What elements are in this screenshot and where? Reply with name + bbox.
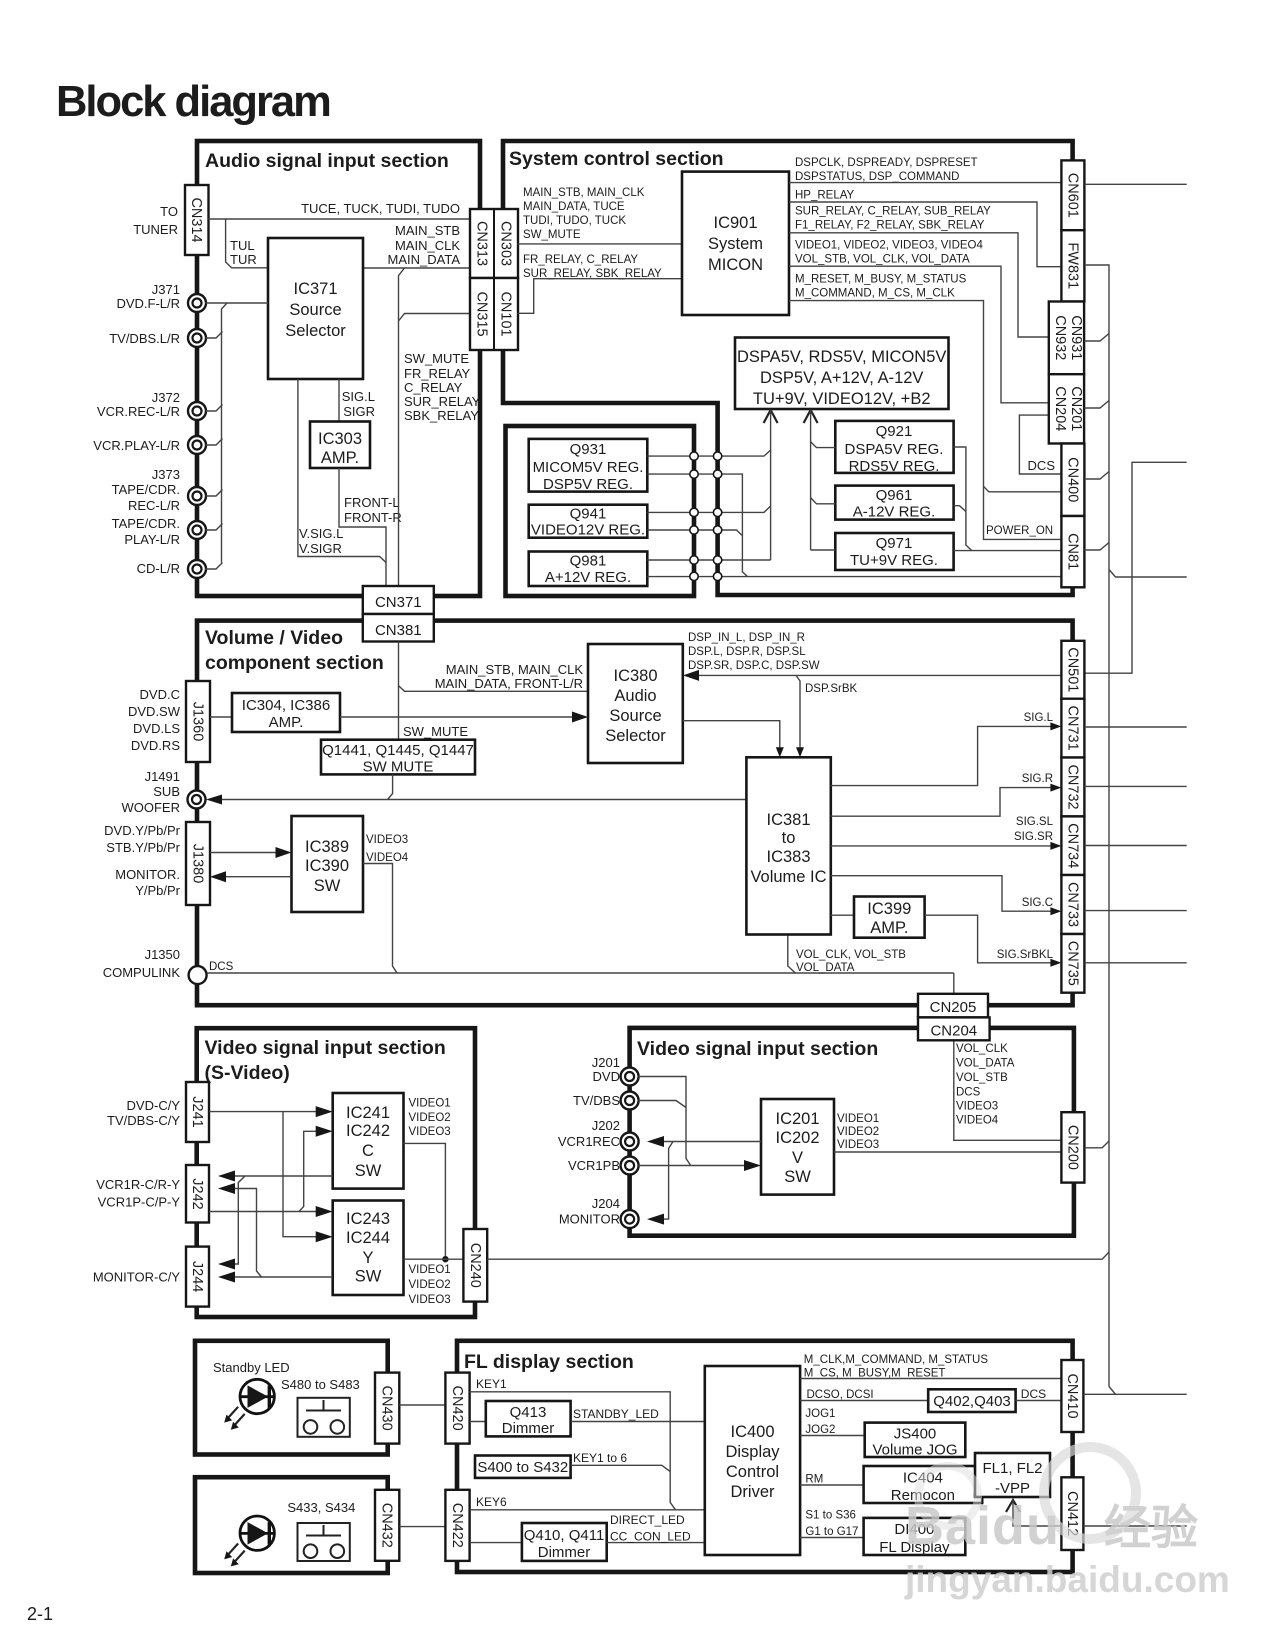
svg-text:VIDEO1, VIDEO2, VIDEO3, VIDEO4: VIDEO1, VIDEO2, VIDEO3, VIDEO4 [795, 240, 984, 252]
connector CN205 [918, 994, 988, 1018]
svg-text:VCR1R-C/R-Y: VCR1R-C/R-Y [96, 1177, 180, 1192]
svg-text:FL1, FL2: FL1, FL2 [982, 1460, 1042, 1477]
jack TAPE/CDR PLAY-L/R [188, 521, 206, 539]
svg-text:TUDI, TUDO, TUCK: TUDI, TUDO, TUCK [523, 215, 626, 227]
svg-text:V.SIG.L: V.SIG.L [299, 526, 343, 541]
wire audio jack collector vertical [222, 303, 228, 563]
svg-text:DVD.C: DVD.C [140, 687, 180, 702]
svg-text:Volume JOG: Volume JOG [872, 1442, 957, 1459]
wire IC304 to IC380 with arrow [340, 716, 579, 718]
svg-text:MAIN_DATA: MAIN_DATA [388, 252, 461, 267]
section box: System control section [503, 141, 1073, 595]
svg-text:DCS: DCS [1021, 1387, 1046, 1401]
wire CN240 long line to bus [487, 1252, 1109, 1259]
svg-text:CN932: CN932 [1052, 315, 1068, 360]
svg-text:RM: RM [805, 1474, 823, 1486]
svg-text:-VPP: -VPP [995, 1480, 1030, 1497]
wire KEY6 CN422 to IC400 [470, 1509, 705, 1511]
wire SW_MUTE CN381 to Q1441 [398, 642, 400, 740]
svg-text:CN422: CN422 [449, 1503, 465, 1548]
svg-text:FL display section: FL display section [464, 1351, 634, 1373]
wire MAIN bus IC371 to CN313 [363, 267, 470, 269]
ic IC400 Display Control Driver [705, 1366, 800, 1555]
wire VCR1PB into IC201 with arrow [638, 1165, 752, 1167]
display tube FL1, FL2 -VPP [975, 1453, 1050, 1497]
jog encoder JS400 Volume JOG [865, 1423, 966, 1457]
wire CD jack stub [206, 563, 223, 570]
svg-text:CN81: CN81 [1064, 533, 1080, 570]
svg-text:SIG.SrBKL: SIG.SrBKL [997, 949, 1054, 961]
svg-text:IC901: IC901 [713, 214, 757, 232]
wire J1360 to IC304 [210, 716, 232, 718]
svg-text:VIDEO4: VIDEO4 [956, 1115, 999, 1127]
wire SIG.C to CN733 [831, 876, 1053, 912]
wire V.SIG IC371 to CN371 [298, 379, 386, 563]
wire TV/DBS jack merge [638, 1101, 686, 1108]
connector CN371 [363, 586, 434, 614]
svg-text:DSPA5V REG.: DSPA5V REG. [845, 441, 944, 458]
svg-text:DSP.L, DSP.R, DSP.SL: DSP.L, DSP.R, DSP.SL [688, 646, 806, 658]
wire J242 into IC243 with arrow [209, 1211, 324, 1213]
svg-text:Driver: Driver [731, 1483, 776, 1501]
wire DCS compulink line [207, 972, 954, 974]
svg-text:DSPCLK, DSPREADY, DSPRESET: DSPCLK, DSPREADY, DSPRESET [795, 157, 978, 169]
connector CN733 [1061, 875, 1084, 934]
connector CN81 [1061, 516, 1084, 587]
jack CD-L/R [188, 560, 206, 578]
svg-text:Q931: Q931 [570, 441, 607, 458]
svg-text:Volume IC: Volume IC [750, 868, 826, 886]
svg-text:Y/Pb/Pr: Y/Pb/Pr [135, 883, 180, 898]
svg-text:DVD-C/Y: DVD-C/Y [127, 1098, 181, 1113]
svg-text:DSP.SR, DSP.C, DSP.SW: DSP.SR, DSP.C, DSP.SW [688, 660, 820, 672]
connector CN931 / CN932 [1049, 302, 1084, 375]
svg-text:CN371: CN371 [375, 594, 422, 611]
svg-text:VOL_DATA: VOL_DATA [956, 1058, 1015, 1070]
wire IC400 JOG to JS400 [800, 1435, 865, 1437]
wire Q961 out [954, 506, 966, 512]
svg-text:DSP_IN_L, DSP_IN_R: DSP_IN_L, DSP_IN_R [688, 632, 805, 644]
wire J241 branch into IC243 with arrow [283, 1112, 324, 1237]
wire Q931 out row1 [647, 450, 770, 456]
connector CN314 [185, 185, 209, 255]
svg-text:Source: Source [609, 707, 661, 725]
svg-text:IC380: IC380 [613, 667, 657, 685]
svg-text:DCS: DCS [1028, 458, 1056, 473]
jack J373 TAPE/CDR REC-L/R [188, 487, 206, 505]
regulator Q961 A-12V [835, 486, 953, 520]
svg-text:M_CLK,M_COMMAND, M_STATUS: M_CLK,M_COMMAND, M_STATUS [804, 1354, 989, 1366]
jack J1350 COMPULINK [189, 966, 207, 984]
svg-text:MICON: MICON [708, 256, 763, 274]
wire CN81 merge to bus [1084, 543, 1109, 551]
svg-text:CN420: CN420 [449, 1386, 465, 1431]
svg-text:VOL_STB, VOL_CLK, VOL_DATA: VOL_STB, VOL_CLK, VOL_DATA [795, 254, 970, 266]
svg-text:VOL_STB: VOL_STB [956, 1072, 1008, 1084]
led D480 symbol [240, 1379, 274, 1413]
wire VCR.PLAY jack stub [206, 439, 223, 446]
svg-text:STB.Y/Pb/Pr: STB.Y/Pb/Pr [106, 840, 180, 855]
wire CN422 to Q410 [470, 1542, 522, 1544]
svg-text:DSP5V REG.: DSP5V REG. [543, 476, 633, 493]
svg-text:CN303: CN303 [498, 221, 514, 266]
svg-text:CN430: CN430 [379, 1386, 395, 1431]
wire CN932 merge to bus [1084, 334, 1109, 342]
wire SIG.L to CN731 [831, 726, 1053, 785]
svg-text:CN731: CN731 [1064, 706, 1080, 751]
wire DCS CN201/204 to CN400 [1019, 415, 1060, 474]
svg-text:IC201: IC201 [775, 1110, 819, 1128]
svg-text:VIDEO3: VIDEO3 [837, 1139, 879, 1151]
svg-text:IC389: IC389 [305, 838, 349, 856]
svg-text:IC400: IC400 [730, 1423, 774, 1441]
svg-text:CN501: CN501 [1064, 647, 1080, 692]
svg-text:MAIN_STB, MAIN_CLK: MAIN_STB, MAIN_CLK [523, 187, 645, 199]
amp IC399 [854, 897, 925, 938]
svg-text:Volume / Video: Volume / Video [205, 627, 343, 649]
svg-text:MAIN_CLK: MAIN_CLK [395, 238, 460, 253]
svg-text:SW: SW [355, 1268, 382, 1286]
svg-text:CN204: CN204 [930, 1023, 977, 1040]
svg-text:to: to [782, 829, 796, 847]
svg-text:VOL_DATA: VOL_DATA [796, 962, 855, 974]
svg-text:KEY1 to 6: KEY1 to 6 [573, 1451, 627, 1465]
svg-text:J1491: J1491 [145, 769, 180, 784]
wire IC901 to CN601 [789, 182, 1061, 184]
svg-text:KEY1: KEY1 [476, 1377, 507, 1391]
svg-text:F1_RELAY, F2_RELAY, SBK_RELAY: F1_RELAY, F2_RELAY, SBK_RELAY [795, 220, 985, 232]
wire CN101 to IC901 relay [518, 279, 682, 314]
svg-text:M_RESET, M_BUSY, M_STATUS: M_RESET, M_BUSY, M_STATUS [795, 274, 967, 286]
svg-text:CN201: CN201 [1068, 386, 1084, 431]
svg-text:WOOFER: WOOFER [122, 800, 181, 815]
svg-text:CN204: CN204 [1052, 386, 1068, 431]
svg-text:CN200: CN200 [1064, 1125, 1080, 1170]
wire IC901 video/vol to CN201/204 [789, 266, 1049, 403]
svg-text:J241: J241 [189, 1096, 205, 1127]
svg-text:VCR1P-C/P-Y: VCR1P-C/P-Y [98, 1195, 181, 1210]
svg-text:CN732: CN732 [1064, 764, 1080, 809]
svg-text:VIDEO12V REG.: VIDEO12V REG. [531, 522, 645, 539]
svg-text:AMP.: AMP. [321, 449, 359, 467]
connector J244 [186, 1247, 209, 1307]
led D433 symbol [240, 1516, 274, 1550]
svg-text:Source: Source [289, 301, 341, 319]
svg-text:J244: J244 [189, 1261, 205, 1292]
svg-text:DVD.RS: DVD.RS [131, 738, 180, 753]
svg-text:System: System [708, 235, 763, 253]
wire IC380 to IC381 with arrow [683, 721, 780, 749]
svg-text:TO: TO [160, 204, 178, 219]
wire IC201 out to VCR1REC with arrow [656, 1141, 761, 1143]
svg-text:DCS: DCS [209, 961, 234, 973]
connector CN313 / CN303 [470, 209, 518, 278]
svg-text:TU+9V REG.: TU+9V REG. [850, 552, 938, 569]
svg-text:FR_RELAY, C_RELAY: FR_RELAY, C_RELAY [523, 254, 638, 266]
wire FL1 to CN412 [1013, 1500, 1061, 1526]
svg-text:SW_MUTE: SW_MUTE [403, 724, 468, 739]
svg-text:JS400: JS400 [894, 1426, 937, 1443]
connector CN601 [1061, 160, 1084, 230]
wire Q941 out row4 [647, 530, 742, 535]
svg-text:FW831: FW831 [1064, 242, 1080, 289]
connector CN430 [375, 1373, 399, 1444]
svg-text:REC-L/R: REC-L/R [128, 498, 180, 513]
svg-text:TAPE/CDR.: TAPE/CDR. [112, 516, 180, 531]
svg-text:Block diagram: Block diagram [56, 78, 330, 126]
arrow into power rail left [764, 410, 778, 423]
svg-text:CN315: CN315 [474, 291, 490, 336]
wire TUCE bus CN314 to CN313 [209, 218, 471, 220]
svg-text:M_CS, M_BUSY,M_RESET: M_CS, M_BUSY,M_RESET [804, 1368, 946, 1380]
section box: Video signal input section [630, 1028, 1074, 1236]
regulator Q931 MICOM5V/DSP5V [529, 439, 648, 492]
wire KEY1 from CN420 [470, 1392, 676, 1510]
watermark Baidu jingyan [904, 1447, 1230, 1600]
wire right collector to Q961 [811, 498, 836, 504]
svg-text:Standby LED: Standby LED [213, 1360, 290, 1375]
svg-text:VIDEO2: VIDEO2 [409, 1112, 451, 1124]
svg-text:SW_MUTE: SW_MUTE [404, 351, 469, 366]
svg-text:SW_MUTE: SW_MUTE [523, 229, 581, 241]
svg-text:Baidu: Baidu [905, 1496, 1060, 1556]
jack J1491 SUB WOOFER [188, 791, 206, 809]
svg-text:CN313: CN313 [474, 221, 490, 266]
svg-text:J373: J373 [152, 467, 180, 482]
regulator group box [506, 426, 695, 596]
svg-text:CN205: CN205 [930, 999, 977, 1016]
svg-text:MONITOR: MONITOR [559, 1212, 620, 1227]
wire IC400 RM to IC404 [800, 1484, 864, 1486]
svg-text:CN432: CN432 [379, 1503, 395, 1548]
connector CN201 / CN204 [1049, 374, 1084, 443]
ic IC381 to IC383 Volume IC [746, 757, 830, 934]
connector CN420 [445, 1373, 469, 1444]
jack J204 MONITOR [621, 1210, 639, 1228]
svg-text:KEY6: KEY6 [476, 1495, 507, 1509]
svg-text:TUR: TUR [230, 252, 257, 267]
wire CN501 riser bus to right edge [1084, 462, 1186, 673]
wire Q413 STANDBY_LED to IC400 [571, 1421, 705, 1423]
svg-text:TUL: TUL [230, 238, 255, 253]
connector FW831 [1061, 230, 1084, 301]
arrow into power rail right [804, 410, 818, 423]
svg-text:V: V [792, 1149, 803, 1167]
svg-text:Audio: Audio [614, 687, 656, 705]
svg-text:Dimmer: Dimmer [502, 1420, 555, 1437]
svg-text:SIG.L: SIG.L [342, 389, 375, 404]
svg-text:SIG.C: SIG.C [1022, 897, 1053, 909]
regulator Q971 TU+9V [835, 533, 953, 570]
connector CN412 [1061, 1477, 1083, 1550]
svg-text:Dimmer: Dimmer [538, 1544, 591, 1561]
svg-text:SIG.L: SIG.L [1024, 712, 1054, 724]
svg-text:RDS5V REG.: RDS5V REG. [849, 458, 940, 475]
svg-text:Q941: Q941 [570, 506, 607, 523]
svg-text:VOL_CLK: VOL_CLK [956, 1043, 1008, 1055]
svg-text:J1350: J1350 [145, 947, 180, 962]
svg-text:Selector: Selector [285, 322, 346, 340]
ic IC243 IC244 Y SW [333, 1201, 404, 1296]
svg-text:VIDEO3: VIDEO3 [409, 1294, 451, 1306]
section box: Volume / Video component section [197, 621, 1073, 1006]
svg-text:System control section: System control section [509, 148, 724, 170]
svg-text:TV/DBS: TV/DBS [573, 1093, 620, 1108]
svg-text:CN314: CN314 [188, 197, 204, 242]
svg-text:IC242: IC242 [346, 1122, 390, 1140]
wire CN412 stub right [1083, 1525, 1186, 1527]
wire M bus branch to CN400 [984, 486, 1062, 492]
led light arrows 2 [228, 1544, 245, 1562]
wire CN200 merge to bus [1084, 1141, 1109, 1148]
svg-text:Q921: Q921 [876, 423, 913, 440]
wire IC389 to J1380 with arrow [219, 876, 292, 878]
svg-text:J372: J372 [152, 390, 180, 405]
wire IC389 out to DCS line [363, 864, 397, 974]
svg-text:CN410: CN410 [1064, 1373, 1080, 1418]
svg-text:SIG.SL: SIG.SL [1016, 816, 1054, 828]
svg-text:J201: J201 [592, 1055, 620, 1070]
svg-text:DVD.LS: DVD.LS [133, 721, 180, 736]
connector J1360 [186, 681, 210, 762]
ic IC901 System MICON [682, 172, 789, 315]
svg-text:IC383: IC383 [766, 848, 810, 866]
svg-text:Q971: Q971 [876, 535, 913, 552]
jack VCR1PB [621, 1157, 639, 1175]
svg-text:Video signal input section: Video signal input section [637, 1038, 878, 1060]
svg-text:AMP.: AMP. [269, 714, 304, 731]
svg-text:SIG.R: SIG.R [1022, 773, 1053, 785]
svg-text:SW: SW [355, 1162, 382, 1180]
dimmer Q410 Q411 [522, 1523, 607, 1561]
wire IC901 M bus vertical [789, 301, 1061, 540]
wire TAPE PLAY jack stub [206, 524, 223, 531]
svg-text:J1380: J1380 [190, 844, 206, 884]
regulator Q941 VIDEO12V [529, 505, 648, 538]
wire branch to MONITOR with arrow [656, 1142, 673, 1220]
wire right collector to Q921 [811, 442, 836, 448]
wire CN303 to IC901 [518, 243, 682, 245]
wire Y SW out to J244 with arrow [227, 1276, 333, 1278]
svg-text:CN240: CN240 [467, 1243, 483, 1288]
svg-text:TV/DBS-C/Y: TV/DBS-C/Y [107, 1113, 180, 1128]
svg-text:C: C [362, 1142, 374, 1160]
ic IC371 Source Selector [268, 238, 363, 379]
svg-text:S1 to S36: S1 to S36 [805, 1510, 856, 1522]
section box: FL display section [457, 1341, 1073, 1572]
svg-text:Q1441, Q1445, Q1447: Q1441, Q1445, Q1447 [322, 742, 474, 759]
switch block S400 to S432 [475, 1456, 571, 1478]
svg-text:IC381: IC381 [766, 811, 810, 829]
wire CN381 branch to IC380 [399, 686, 589, 692]
wire IC901 relays to CN931/932 [789, 233, 1049, 337]
svg-text:CN381: CN381 [375, 622, 422, 639]
wire CN432 to CN422 [399, 1526, 445, 1528]
svg-text:2-1: 2-1 [27, 1604, 53, 1624]
wire right collector to Q971 [811, 549, 836, 551]
section box: Video signal input section (S-Video) [197, 1028, 475, 1317]
svg-text:Q410, Q411: Q410, Q411 [524, 1527, 605, 1544]
connector J1380 [186, 822, 210, 905]
connector CN315 / CN101 [470, 278, 518, 350]
wire CN410 stub right [1083, 1393, 1186, 1395]
display DI400 FL Display [864, 1518, 966, 1555]
jack TV/DBS video [621, 1092, 639, 1110]
ic IC404 Remocon [864, 1466, 983, 1503]
wire VCR.REC jack stub [206, 405, 223, 412]
arrow into FL1 box [1006, 1500, 1020, 1512]
svg-text:SBK_RELAY: SBK_RELAY [404, 408, 479, 423]
wire subwoofer line from IC381 with arrow [213, 799, 746, 801]
svg-text:IC244: IC244 [346, 1229, 390, 1247]
svg-text:G1 to G17: G1 to G17 [805, 1526, 858, 1538]
junction dots on regulator rows [690, 452, 698, 460]
svg-text:VIDEO2: VIDEO2 [409, 1279, 451, 1291]
svg-text:经验: 经验 [1104, 1501, 1198, 1554]
wire CN732 stub [1084, 785, 1186, 787]
svg-text:Display: Display [725, 1443, 780, 1461]
svg-text:CN733: CN733 [1064, 882, 1080, 927]
switch S480 symbol [298, 1398, 350, 1437]
wire CN735 stub [1084, 962, 1186, 964]
standby box 1 [195, 1341, 388, 1455]
wire FRONT-L/R IC303 to CN371 [339, 468, 386, 586]
svg-text:VIDEO3: VIDEO3 [409, 1126, 451, 1138]
jack J372 VCR.REC-L/R [188, 402, 206, 420]
svg-text:SUB: SUB [153, 784, 180, 799]
regulator Q921 DSPA5V/RDS5V [835, 421, 953, 473]
svg-text:MAIN_DATA, FRONT-L/R: MAIN_DATA, FRONT-L/R [435, 676, 583, 691]
svg-text:SIGR: SIGR [343, 404, 375, 419]
wire SIG.L/SIGR IC371 to IC303 [338, 379, 340, 422]
svg-text:S433, S434: S433, S434 [287, 1500, 355, 1515]
svg-text:DVD.F-L/R: DVD.F-L/R [116, 296, 180, 311]
svg-text:DVD: DVD [593, 1069, 620, 1084]
svg-text:FRONT-L: FRONT-L [344, 495, 400, 510]
svg-text:FR_RELAY: FR_RELAY [404, 366, 471, 381]
wire Q402 DCS to CN410 [1016, 1400, 1062, 1402]
wire CN400 merge to bus [1084, 472, 1109, 480]
svg-text:STANDBY_LED: STANDBY_LED [573, 1407, 659, 1421]
svg-text:J242: J242 [189, 1178, 205, 1209]
svg-text:VIDEO3: VIDEO3 [956, 1101, 998, 1113]
svg-text:J1360: J1360 [190, 702, 206, 742]
svg-text:Q402,Q403: Q402,Q403 [933, 1393, 1011, 1410]
svg-text:VOL_CLK, VOL_STB: VOL_CLK, VOL_STB [796, 949, 906, 961]
wire TV/DBS jack stub [206, 332, 223, 339]
svg-text:A+12V REG.: A+12V REG. [545, 569, 631, 586]
wire power collector right vertical [810, 410, 812, 550]
switch S433 symbol [298, 1523, 350, 1561]
jack J371 DVD.F-L/R [188, 294, 206, 312]
connector CN410 [1061, 1360, 1083, 1432]
connector CN200 [1061, 1112, 1084, 1182]
wire Q981 out row6 to CN81 [647, 576, 1060, 578]
svg-text:IC390: IC390 [305, 857, 349, 875]
wire J241 into IC241 with arrow [209, 1111, 324, 1113]
svg-text:PLAY-L/R: PLAY-L/R [124, 532, 180, 547]
wire C SW branch to J244 with arrow [227, 1176, 246, 1264]
svg-text:IC202: IC202 [775, 1129, 819, 1147]
wire power stub right with bus merge [1109, 570, 1187, 578]
svg-text:CN931: CN931 [1068, 315, 1084, 360]
svg-text:VCR.REC-L/R: VCR.REC-L/R [97, 404, 180, 419]
svg-text:DCSO, DCSI: DCSO, DCSI [807, 1389, 874, 1401]
wire CN734 stub [1084, 845, 1186, 847]
wire TUL/TUR branch into IC371 [226, 219, 268, 268]
svg-text:Q413: Q413 [510, 1404, 547, 1421]
svg-text:CN735: CN735 [1064, 941, 1080, 986]
